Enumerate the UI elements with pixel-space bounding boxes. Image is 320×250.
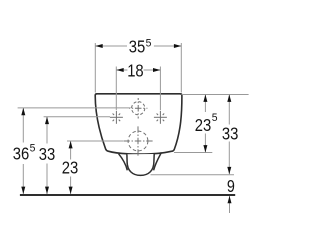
dim 35.5 extension lines <box>94 43 96 93</box>
svg-text:23: 23 <box>62 158 79 178</box>
dim 18 line <box>116 69 127 71</box>
left fixing hole <box>110 111 123 124</box>
leader supply height <box>18 107 131 109</box>
dim 18 arrows <box>116 68 123 72</box>
outlet spigot left wing <box>119 154 128 171</box>
svg-text:23: 23 <box>195 115 212 135</box>
svg-text:33: 33 <box>39 144 56 164</box>
dim 9 lower arrow <box>229 196 231 213</box>
dim 35.5 arrows <box>95 44 102 48</box>
svg-text:35: 35 <box>129 36 146 56</box>
leader fixing height <box>44 116 110 118</box>
svg-text:9: 9 <box>227 176 235 196</box>
leader bottom edge right <box>174 152 212 154</box>
outlet tube <box>127 154 154 175</box>
dim 23.5 line <box>204 95 206 113</box>
right fixing hole <box>154 111 167 124</box>
leader outlet height <box>67 140 123 142</box>
outlet hole <box>123 126 152 155</box>
leader spigot bottom <box>151 174 235 176</box>
outlet spigot right wing <box>154 152 162 170</box>
top supply hole <box>129 98 147 119</box>
svg-text:5: 5 <box>146 38 152 50</box>
svg-text:5: 5 <box>212 112 218 124</box>
dim 36.5 line <box>22 108 24 143</box>
floor reference line <box>20 194 235 196</box>
dim 35.5 line <box>95 45 127 47</box>
svg-text:18: 18 <box>127 61 144 81</box>
wc body outline <box>95 94 182 154</box>
dim 33 right line <box>228 95 230 125</box>
svg-text:36: 36 <box>13 144 30 164</box>
svg-text:33: 33 <box>222 123 239 143</box>
dim 18 extension lines <box>115 67 117 111</box>
leader top edge right <box>182 94 249 96</box>
dim 23 line <box>70 141 72 160</box>
dim 33 left line <box>46 117 48 144</box>
svg-text:5: 5 <box>30 142 36 154</box>
